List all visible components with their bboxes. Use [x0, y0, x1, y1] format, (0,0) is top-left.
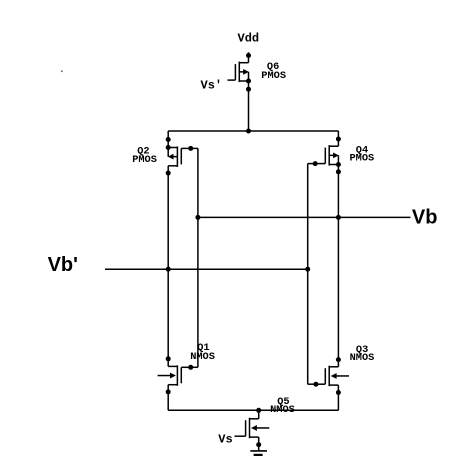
wire Q2 gate to node [189, 147, 198, 149]
wire cross-couple right vertical [307, 164, 309, 385]
wire Vb' [105, 268, 308, 270]
svg-text:Vs: Vs [218, 433, 232, 447]
stray speck [61, 70, 63, 72]
svg-text:PMOS: PMOS [261, 70, 286, 82]
svg-text:Vdd: Vdd [238, 32, 260, 46]
wire right column middle [337, 165, 339, 360]
wire cross-couple left vertical [197, 148, 199, 367]
wire right column upper [337, 131, 339, 139]
wire left column middle [167, 173, 169, 366]
svg-text:Vs': Vs' [201, 78, 223, 92]
wire left column lower [167, 392, 169, 410]
wire Vdd stub [248, 52, 250, 55]
svg-text:NMOS: NMOS [350, 352, 375, 364]
transistor Q4 [317, 139, 338, 166]
wire Q6 source to top rail [248, 81, 250, 131]
wire Q3 gate to node [308, 383, 318, 385]
wire bottom rail [168, 409, 338, 411]
svg-text:PMOS: PMOS [350, 153, 375, 165]
wire Q5 gate extension [235, 435, 238, 437]
transistor Q2 [168, 146, 189, 173]
transistor Q5 [238, 412, 270, 439]
wire Vb [198, 216, 411, 218]
svg-text:NMOS: NMOS [270, 404, 295, 416]
svg-text:Vb': Vb' [48, 254, 78, 276]
wire right column lower [337, 385, 339, 410]
transistor Q1 [158, 365, 190, 392]
wire Q5 drain to bottom rail [258, 410, 260, 411]
wire Q1 gate to node [189, 366, 198, 368]
svg-text:PMOS: PMOS [132, 154, 157, 166]
transistor Q6 [228, 56, 249, 83]
svg-text:Vb: Vb [412, 206, 438, 228]
svg-text:NMOS: NMOS [190, 351, 215, 363]
transistor Q3 [317, 360, 349, 387]
wire Q5 source to ground [258, 437, 260, 451]
ground [250, 451, 267, 456]
wire Q4 gate to node [308, 163, 318, 165]
wire left column upper [167, 131, 169, 148]
wire top rail [168, 130, 338, 132]
node dots [166, 53, 341, 447]
